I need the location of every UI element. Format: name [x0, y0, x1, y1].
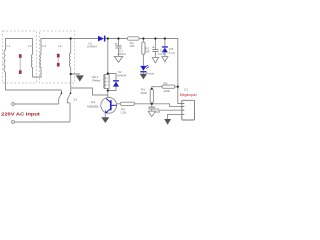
svg-text:Megasquirt: Megasquirt: [180, 93, 197, 97]
svg-text:100uF: 100uF: [117, 52, 126, 56]
svg-text:5.1V: 5.1V: [169, 51, 176, 55]
svg-text:S1: S1: [73, 98, 77, 102]
svg-text:U1: U1: [184, 88, 188, 92]
svg-text:L2: L2: [28, 44, 32, 48]
svg-text:MJE3055: MJE3055: [87, 105, 99, 109]
svg-text:Relay: Relay: [92, 78, 100, 82]
svg-text:3300: 3300: [140, 91, 147, 95]
svg-text:220V AC Input: 220V AC Input: [1, 112, 40, 118]
svg-text:223: 223: [155, 110, 160, 114]
svg-text:10k: 10k: [145, 50, 150, 54]
svg-text:1N4004: 1N4004: [87, 45, 97, 49]
svg-text:47uF: 47uF: [158, 52, 165, 56]
svg-text:L4: L4: [58, 44, 62, 48]
svg-text:100k: 100k: [163, 89, 170, 93]
svg-text:140: 140: [129, 44, 134, 48]
svg-text:R5: R5: [163, 81, 167, 85]
svg-text:1N4004: 1N4004: [116, 73, 126, 77]
svg-text:L1: L1: [7, 44, 11, 48]
svg-text:Power: Power: [146, 72, 155, 76]
svg-text:L3: L3: [43, 44, 47, 48]
svg-text:1.2K: 1.2K: [120, 111, 127, 115]
svg-text:Q1: Q1: [91, 100, 95, 104]
